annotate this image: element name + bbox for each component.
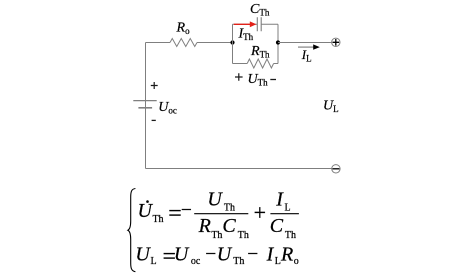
terminal minus: [332, 165, 340, 173]
wire: output wire to positive terminal: [278, 42, 332, 44]
wire: left vertical wire: [145, 43, 147, 169]
terminal plus: [332, 38, 340, 46]
eq2 minus sign 2: [247, 244, 258, 265]
current arrow ITh (red): [234, 21, 257, 27]
eq2 minus sign 1: [205, 244, 216, 265]
current arrow IL: [298, 44, 320, 49]
svg-text:CTh: CTh: [250, 2, 270, 17]
label IL: [301, 47, 312, 64]
eq2 UTh term: [217, 244, 245, 267]
label ITh: [238, 27, 254, 43]
eq2 UL term: [135, 244, 156, 267]
eq1 fraction1 denominator RTh CTh: [198, 215, 249, 241]
svg-text:UL: UL: [323, 99, 339, 115]
wire: capacitor branch right lead: [261, 23, 278, 25]
svg-text:IL: IL: [275, 189, 290, 214]
svg-text:CTh: CTh: [270, 215, 296, 241]
label RTh: [250, 44, 270, 60]
resistor RTh zigzag: [247, 59, 273, 68]
svg-text:UTh: UTh: [248, 72, 269, 88]
capacitor CTh plates: [257, 17, 261, 31]
eq1 fraction2 numerator IL: [275, 189, 290, 214]
wire: bottom wire: [146, 168, 332, 170]
eq1 equals sign: [168, 200, 182, 225]
svg-text:Ro: Ro: [176, 21, 191, 37]
svg-text:IL: IL: [266, 244, 281, 267]
eq2 Uoc term: [174, 244, 201, 267]
label + UTh -: [235, 72, 276, 88]
wire: parallel box left vertical: [232, 24, 234, 63]
equation system brace: [128, 189, 135, 272]
svg-text:RThCTh: RThCTh: [198, 215, 249, 241]
svg-text:ITh: ITh: [238, 27, 254, 43]
svg-text:RTh: RTh: [250, 44, 270, 60]
eq1 plus sign: [254, 200, 266, 225]
node junction dot right: [276, 40, 280, 44]
battery Uoc long plate: [133, 100, 156, 102]
eq2 Ro term: [280, 244, 299, 267]
wire: capacitor branch left lead: [233, 23, 258, 25]
svg-text:Uoc: Uoc: [174, 244, 201, 267]
eq2 IL term: [266, 244, 281, 267]
svg-text:=: =: [168, 200, 182, 225]
svg-text:+: +: [254, 200, 266, 225]
label UL: [323, 99, 339, 115]
label battery plus: [151, 82, 158, 89]
svg-text:UTh: UTh: [217, 244, 245, 267]
resistor Ro zigzag: [170, 39, 197, 47]
svg-text:Ro: Ro: [280, 244, 299, 267]
eq1 fraction2 bar: [270, 213, 299, 215]
svg-text:−: −: [247, 244, 258, 265]
eq2 equals sign: [163, 243, 177, 268]
eq1 fraction2 denominator CTh: [270, 215, 296, 241]
eq1 dotted U term: [138, 200, 164, 225]
wire: top wire right segment: [197, 42, 233, 44]
svg-text:UTh: UTh: [207, 189, 235, 214]
svg-text:UTh: UTh: [138, 200, 164, 225]
wire: top wire left segment: [146, 42, 171, 44]
wire: resistor branch right lead: [274, 63, 278, 65]
node junction dot left: [230, 40, 234, 44]
svg-text:Uoc: Uoc: [158, 100, 177, 116]
label CTh: [250, 2, 270, 17]
label Uoc: [158, 100, 177, 116]
svg-text:−: −: [205, 244, 216, 265]
eq1 fraction1 numerator UTh: [207, 189, 235, 214]
svg-text:UL: UL: [135, 244, 156, 267]
svg-text:IL: IL: [301, 47, 312, 64]
wire: resistor branch left lead: [233, 63, 248, 65]
label battery minus: [152, 119, 156, 121]
battery Uoc short plate: [138, 107, 152, 109]
svg-text:−: −: [181, 200, 192, 221]
wire: parallel box right vertical: [277, 24, 279, 63]
label Ro: [176, 21, 191, 37]
eq1 fraction1 bar: [194, 213, 248, 215]
eq1 minus sign: [181, 200, 192, 221]
